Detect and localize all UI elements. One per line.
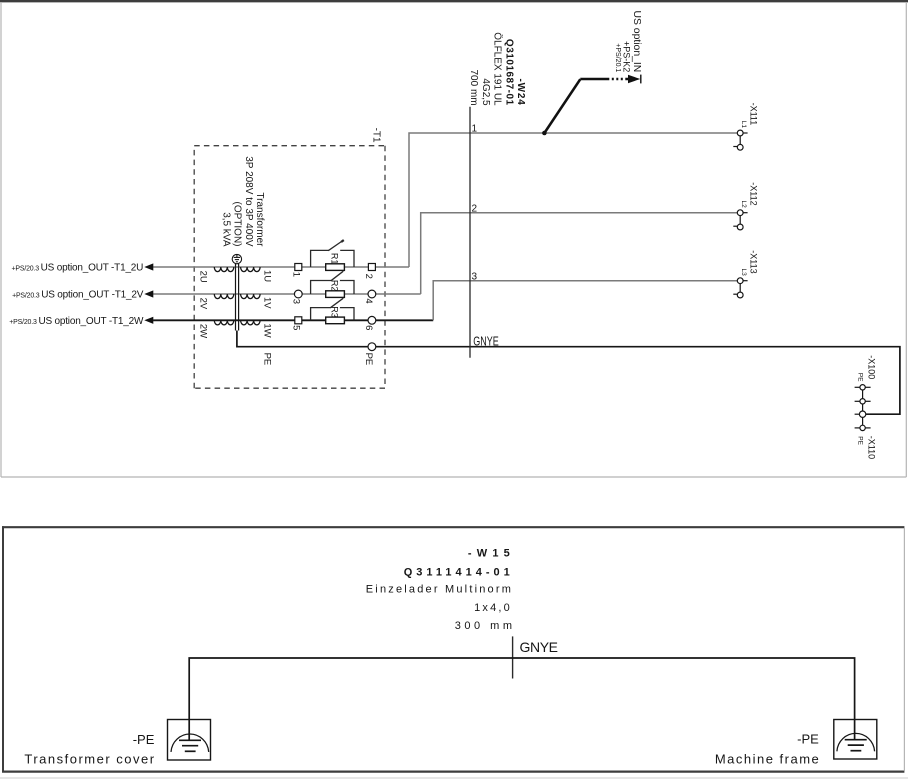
svg-text:-X111: -X111 [749,103,759,126]
svg-text:2: 2 [472,203,478,214]
svg-text:1: 1 [291,272,302,277]
svg-text:L2: L2 [740,201,747,209]
svg-text:1W: 1W [261,323,272,337]
terminal -X113 [733,278,747,298]
svg-text:3,5 kVA: 3,5 kVA [220,212,231,247]
svg-text:GNYE: GNYE [520,639,558,655]
transformer earth terminal [232,254,241,263]
svg-text:300 mm: 300 mm [455,620,516,632]
top sheet frame [0,1,908,477]
svg-text:-T1: -T1 [370,128,381,143]
terminal 3 [294,290,302,298]
tap bypass contact row 2 [311,271,354,294]
terminal 1 [295,264,302,271]
transformer winding 2V [214,294,234,299]
svg-text:-W15: -W15 [468,548,515,560]
svg-text:R1: R1 [329,253,339,265]
svg-text:+PS/20.1: +PS/20.1 [614,43,621,72]
transformer winding 1V [241,294,261,299]
arrow US option_OUT -T1_2U [144,263,153,270]
svg-text:3: 3 [472,271,478,282]
terminal 2 [368,264,375,271]
terminal -X111 [733,130,747,150]
terminal PE [368,343,376,351]
transformer winding 1U [241,267,261,272]
wire vertical from terminal 2 up to line 1 [409,133,737,267]
svg-text:1U: 1U [261,270,272,282]
transformer T1 rating text [220,156,265,247]
svg-text:4: 4 [363,298,374,303]
transformer winding 2W [214,320,234,325]
cable W15 marker line [512,636,514,678]
terminal 6 [368,316,376,324]
svg-text:2W: 2W [197,324,208,338]
svg-text:+PS-K2: +PS-K2 [622,41,632,72]
svg-text:5: 5 [291,325,302,330]
transformer winding 2U [214,267,234,272]
terminal 4 [368,290,376,298]
svg-text:700 mm: 700 mm [468,69,479,105]
svg-text:PE: PE [363,353,374,366]
svg-text:L1: L1 [740,121,747,129]
svg-text:2U: 2U [197,271,208,283]
cable W24 labels [468,32,526,106]
wire vertical from terminal 6 up to line 3 [433,281,737,321]
svg-text:2: 2 [363,274,374,279]
svg-text:1V: 1V [261,297,272,309]
svg-text:Q3101687-01: Q3101687-01 [503,39,514,106]
cable W24 marker line [469,107,471,358]
svg-text:3P 208V to 3P 400V: 3P 208V to 3P 400V [243,156,254,247]
ground symbol transformer cover [168,720,211,761]
arrow US option_OUT -T1_2V [144,290,153,297]
svg-text:1x4,0: 1x4,0 [474,602,512,614]
svg-text:PE: PE [857,373,864,382]
terminal 5 [295,317,302,324]
terminal -X112 [733,210,747,230]
wire row 2U (gray) [153,266,409,268]
svg-text:4G2,5: 4G2,5 [480,78,491,106]
svg-text:PE: PE [857,436,864,445]
wire vertical from terminal 4 up to line 2 [421,213,738,294]
svg-text:PE: PE [261,353,272,366]
terminal strip X100 / X110 [855,385,871,431]
svg-text:Transformer cover: Transformer cover [24,752,155,767]
tap bypass contact row 3 [311,298,354,320]
svg-text:-X110: -X110 [866,436,876,459]
wire row 2V (gray) [153,293,421,295]
svg-text:-X100: -X100 [866,355,876,379]
svg-text:-W24: -W24 [515,79,526,106]
svg-text:L3: L3 [740,269,747,277]
resistor R2 [326,291,345,298]
transformer T1 dashed enclosure [194,146,385,389]
svg-text:-PE: -PE [133,732,155,747]
tap bypass contact row 1 [311,240,354,267]
svg-text:R2: R2 [329,280,339,292]
svg-text:2V: 2V [197,298,208,310]
wire PE / GNYE run to X100 [237,331,900,415]
svg-text:Q3111414-01: Q3111414-01 [404,567,514,579]
bottom sheet frame [0,526,908,778]
svg-text:-PE: -PE [797,732,819,747]
svg-text:Machine frame: Machine frame [715,752,820,767]
svg-text:-X112: -X112 [749,182,759,205]
svg-text:GNYE: GNYE [473,335,498,349]
svg-text:1: 1 [472,124,478,135]
svg-text:3: 3 [291,299,302,304]
wire row 2W (black) [153,319,433,321]
svg-text:R3: R3 [329,306,339,318]
svg-text:Einzelader Multinorm: Einzelader Multinorm [366,584,513,596]
ground symbol machine frame [834,720,877,760]
svg-text:Transformer: Transformer [254,192,265,247]
svg-text:(OPTION): (OPTION) [232,202,243,247]
svg-text:6: 6 [363,325,374,330]
transformer winding 1W [241,320,261,325]
svg-text:ÖLFLEX 191 UL: ÖLFLEX 191 UL [492,32,504,106]
winding labels [197,270,272,365]
transformer core [235,264,237,331]
arrow US option_OUT -T1_2W [144,317,153,324]
wire GNYE bottom [189,658,854,740]
resistor R1 [326,264,345,271]
svg-text:-X113: -X113 [749,250,759,273]
resistor R3 [326,317,345,324]
interruption point arrow US option_IN [542,131,547,136]
